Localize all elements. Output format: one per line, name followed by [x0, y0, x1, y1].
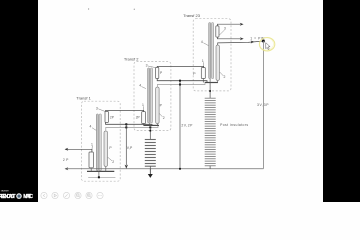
control button draw	[63, 192, 69, 198]
svg-text:2: 2	[112, 160, 114, 164]
junction dot T2 shield	[149, 126, 151, 128]
svg-text:2P: 2P	[110, 115, 115, 119]
speck dot A	[88, 8, 89, 9]
bottom return wire (main)	[65, 168, 263, 170]
T1 pointer line 2	[108, 157, 112, 161]
transformer T3 winding bar W3b	[211, 23, 213, 79]
speck dot B	[134, 9, 135, 10]
wire T1 coupling top to T2 input	[106, 110, 144, 111]
T3 bottom bus bar	[205, 82, 218, 84]
svg-text:Transf 23: Transf 23	[183, 13, 201, 18]
transformer T2 coupling box P	[156, 67, 159, 78]
ground arrow below return	[149, 169, 151, 175]
T3 foot wire (winding to bus)	[209, 79, 211, 83]
transformer T1 input box	[89, 152, 93, 168]
svg-text:1: 1	[142, 103, 144, 107]
T1 foot wire (secondary to bus)	[105, 167, 107, 172]
tap wire 2V,2P down to return	[179, 81, 181, 169]
transformer T3 secondary bar	[216, 45, 219, 81]
T1 pointer line 1	[91, 146, 94, 152]
svg-text:1: 1	[91, 143, 93, 147]
transformer T1 winding bar W1a	[96, 114, 98, 171]
svg-text:MATIC: MATIC	[23, 194, 33, 200]
transformer T2 secondary bar P	[156, 87, 159, 124]
left pillarbox bar	[0, 0, 38, 202]
right pillarbox bar	[323, 0, 360, 202]
T3 foot wire (secondary to bus)	[217, 81, 219, 83]
svg-text:2P: 2P	[63, 158, 69, 162]
transformer T2 dashed enclosure	[134, 62, 171, 131]
wire T3 bus down to insulator stack 2	[209, 83, 211, 99]
T3 foot wire (input box to bus)	[202, 79, 204, 83]
svg-text:MADE WITH: MADE WITH	[1, 190, 9, 193]
player controls	[41, 192, 103, 198]
T2 pointer line 2	[159, 113, 162, 116]
T3 pointer line 4	[203, 43, 208, 46]
T3 pointer line 2	[220, 72, 224, 76]
tap wire 3V,3P down to return	[262, 41, 264, 169]
wire T2 secondary top to T3 bus (grey)	[157, 83, 205, 87]
T1 bus drop wire	[98, 171, 100, 177]
svg-text:4: 4	[90, 125, 92, 129]
junction dot T2 box edge	[149, 130, 151, 132]
transformer T3 dashed enclosure	[193, 19, 231, 91]
mouse cursor	[266, 43, 270, 50]
wire T2 coupling bottom to T3 bus	[157, 79, 207, 83]
output arrowhead A	[240, 23, 244, 26]
svg-text:1: 1	[202, 59, 204, 63]
insulator stack 2 (ticks)	[205, 98, 216, 166]
T2 foot wire (input box to bus)	[143, 124, 145, 126]
svg-text:2P: 2P	[136, 115, 141, 119]
svg-text:3: 3	[146, 64, 148, 68]
transformer T3 coupling box	[216, 26, 219, 37]
transformer T1 coupling box 2P	[105, 111, 108, 122]
svg-text:P: P	[109, 146, 112, 150]
junction dot node 2V upper	[179, 80, 181, 82]
svg-text:Transf 1: Transf 1	[76, 95, 91, 100]
transformer T1 winding bar W1b	[99, 114, 101, 171]
svg-text:Transf 2: Transf 2	[124, 56, 139, 61]
junction dot node VP lower	[125, 126, 127, 128]
svg-text:4: 4	[201, 40, 203, 44]
junction dot HV node	[262, 40, 265, 43]
control button zoom-in	[86, 192, 92, 198]
input arrowhead upper	[65, 148, 69, 151]
input arrowhead lower	[65, 167, 69, 170]
junction dot node VP upper	[125, 123, 127, 125]
output wire A (T3 coupling top)	[217, 24, 240, 26]
svg-text:P: P	[160, 71, 163, 75]
control button back	[41, 192, 47, 198]
wire T1 secondary top to T2 shield (grey)	[106, 126, 158, 131]
output wire C (T3 secondary top to HV node)	[218, 41, 264, 45]
T2 pointer line 1	[142, 106, 144, 111]
svg-text:4: 4	[139, 83, 141, 87]
transformer T2 winding bar W2b	[150, 68, 152, 123]
svg-text:2V,2P: 2V,2P	[181, 124, 193, 128]
T2 foot wire (secondary to bus)	[156, 124, 158, 126]
transformer T2 input box 2P	[142, 112, 146, 124]
svg-text:V,P: V,P	[127, 146, 133, 150]
tap arrowhead V,P	[125, 165, 128, 169]
wire T1 coupling bottom to T2 bus	[106, 123, 152, 126]
control button play	[52, 192, 58, 198]
svg-text:3: 3	[96, 106, 98, 110]
tap wire V,P down to return	[125, 124, 127, 165]
transformer T1 dashed enclosure	[82, 101, 121, 181]
junction dot node 2V lower	[179, 84, 181, 86]
T2 pointer line 4	[141, 87, 146, 89]
highlight circle (yellow)	[259, 38, 274, 51]
wire T2 coupling top to T3 input	[157, 66, 203, 67]
svg-text:2: 2	[163, 116, 165, 120]
junction dot T1 shield	[98, 176, 100, 178]
watermark: o-matic logo ring	[17, 194, 21, 198]
svg-text:CREENCAST: CREENCAST	[0, 194, 16, 200]
transformer T1 secondary bar P	[104, 131, 108, 167]
T1 pointer line 3	[98, 109, 105, 112]
T1 pointer line 4	[92, 128, 96, 131]
wire stack 2 to return	[209, 166, 211, 169]
svg-text:P: P	[193, 72, 196, 76]
wire stack 1 to return	[149, 166, 151, 169]
junction dot tap 2V at return	[179, 168, 181, 170]
control button zoom-out	[75, 192, 81, 198]
output arrowhead C	[251, 41, 255, 44]
T1 foot wire (input box to bus)	[90, 168, 92, 172]
T3 pointer line 1	[202, 62, 204, 67]
svg-text:Post insulators: Post insulators	[220, 123, 248, 127]
transformer T2 winding bar W2a	[148, 68, 150, 123]
T2 foot wire (winding to bus)	[149, 123, 151, 126]
T2 bottom bus bar	[144, 124, 160, 126]
T3 pointer line 3	[220, 30, 225, 35]
insulator stack 1 (ticks)	[145, 140, 156, 167]
wire T2 shield down to insulator stack 1	[149, 127, 151, 139]
output wire B (T3 coupling bottom)	[217, 37, 240, 39]
T1 foot wire (winding to bus)	[98, 170, 100, 173]
T2 pointer line 3	[148, 66, 156, 68]
svg-text:2: 2	[224, 75, 226, 79]
control button more	[97, 192, 103, 198]
T1 bottom bus bar	[87, 170, 114, 172]
junction dot T3 box edge	[209, 90, 211, 92]
input wire upper (2P supply)	[65, 149, 92, 152]
transformer T3 input box P	[201, 68, 205, 79]
T1 lower shield wire	[88, 176, 115, 178]
svg-text:P: P	[160, 103, 163, 107]
output arrowhead B	[240, 37, 244, 40]
transformer T3 winding bar W3a	[209, 23, 211, 79]
